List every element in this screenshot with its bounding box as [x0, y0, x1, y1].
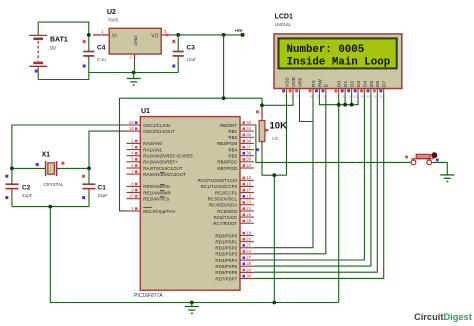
junction VDD line / resistor top [260, 103, 264, 107]
pin 6 E [322, 84, 330, 99]
svg-text:RA0/AN0: RA0/AN0 [143, 141, 162, 146]
svg-text:D0: D0 [337, 81, 343, 87]
svg-text:C4: C4 [97, 45, 106, 52]
pin 4 RA2/AN2/VREF-/CVREF [126, 151, 193, 159]
wire ground rail power [89, 72, 178, 74]
svg-text:CírcuitDigest: CírcuitDigest [414, 312, 472, 322]
crystal X1 [12, 161, 89, 176]
svg-text:RD2/PSP2: RD2/PSP2 [215, 246, 237, 251]
pin 17 RC2/CCP1 [215, 187, 254, 195]
wire crystal rail to main ground rail [49, 207, 51, 303]
svg-text:35: 35 [246, 132, 251, 137]
svg-text:VEE: VEE [297, 77, 303, 87]
wire VSS link to ground rail [273, 175, 275, 302]
pin 29 RD6/PSP6 [215, 267, 253, 275]
pin 38 RB5 [228, 151, 253, 159]
junction crystal rail drop [48, 205, 52, 209]
svg-text:RB1: RB1 [228, 129, 237, 134]
svg-text:37: 37 [246, 144, 251, 149]
pin 8 RE0/AN5/RD [126, 181, 170, 189]
svg-text:25: 25 [246, 212, 251, 217]
pin 3 VEE [295, 77, 303, 98]
capacitor C2 [5, 168, 18, 206]
svg-text:RE2/AN7/CS: RE2/AN7/CS [143, 196, 169, 201]
svg-text:RC0/T1OSO/T1CKI: RC0/T1OSO/T1CKI [198, 178, 238, 183]
pin 21 RD2/PSP2 [215, 243, 253, 251]
svg-text:20: 20 [246, 237, 251, 242]
ground [185, 307, 199, 314]
pin 8 D1 [341, 81, 349, 99]
pin 13 D6 [373, 81, 381, 99]
junction D1 tie [343, 103, 347, 107]
wire MCLR pull-up line [120, 98, 263, 211]
svg-text:VSS: VSS [284, 77, 290, 87]
svg-text:RD3/PSP3: RD3/PSP3 [215, 252, 237, 257]
junction D2 tie [350, 103, 354, 107]
svg-text:RC2/CCP1: RC2/CCP1 [215, 190, 238, 195]
capacitor C1 [82, 168, 95, 206]
svg-text:RB7/PGD: RB7/PGD [217, 166, 238, 171]
svg-text:36: 36 [246, 138, 251, 143]
svg-text:GND: GND [133, 35, 138, 46]
svg-text:RD0/PSP0: RD0/PSP0 [215, 233, 237, 238]
wire to ground symbol [133, 73, 135, 79]
pin 30 RD7/PSP7 [215, 273, 253, 281]
pin 26 RC7/RX/DT [213, 218, 253, 226]
node +5V [235, 28, 245, 37]
svg-text:LM016L: LM016L [275, 22, 292, 27]
wire D0 down to ground rail [338, 94, 340, 303]
junction regulator ground [132, 71, 136, 75]
pin 19 RD0/PSP0 [215, 230, 253, 238]
pin 13 OSC1/CLKIN [126, 120, 170, 128]
pin 9 D2 [347, 81, 355, 99]
svg-text:RW: RW [317, 79, 323, 87]
wire D6 to RD6 [254, 94, 377, 273]
pin 36 RB3/PGM [217, 138, 254, 146]
battery BAT1 [29, 22, 47, 79]
wire button to ground [432, 162, 448, 174]
svg-text:24: 24 [246, 206, 251, 211]
svg-text:PIC16F877A: PIC16F877A [134, 293, 163, 299]
svg-text:40: 40 [246, 163, 251, 168]
overline WR [160, 190, 164, 192]
svg-text:U1: U1 [141, 108, 150, 115]
wire D4 to RD4 [254, 94, 365, 260]
wire VEE jog [300, 94, 314, 122]
svg-text:39: 39 [246, 157, 251, 162]
pin 15 RC0/T1OSO/T1CKI [198, 175, 254, 183]
pin 14 D7 [379, 81, 387, 99]
wire D5 to RD5 [254, 94, 371, 266]
pin 6 RA4/T0CKI/C1OUT [126, 163, 182, 171]
svg-text:RC4/SDI/SDA: RC4/SDI/SDA [209, 203, 237, 208]
wire battery- to ground rail [38, 73, 89, 80]
svg-text:RC1/T1OSI/CCP2: RC1/T1OSI/CCP2 [201, 184, 238, 189]
pin 5 RA3/AN3/VREF+ [126, 157, 178, 165]
resistor R1 10K [256, 105, 268, 151]
svg-text:RC7/RX/DT: RC7/RX/DT [213, 221, 237, 226]
svg-text:RD4/PSP4: RD4/PSP4 [215, 258, 237, 263]
svg-text:LCD1: LCD1 [275, 14, 293, 21]
svg-text:D3: D3 [356, 81, 362, 87]
junction ground symbol [190, 301, 194, 305]
svg-text:13: 13 [373, 95, 376, 99]
svg-text:RA5/AN4/SS/C2OUT: RA5/AN4/SS/C2OUT [143, 172, 186, 177]
wire resistor bottom to VSS link [262, 148, 287, 176]
pin 37 RB4 [228, 144, 253, 152]
junction +5V drop [222, 33, 226, 37]
svg-text:30: 30 [246, 273, 251, 278]
svg-text:0.1u: 0.1u [97, 57, 106, 62]
svg-text:10: 10 [129, 194, 134, 199]
svg-text:OSC1/CLKIN: OSC1/CLKIN [143, 123, 170, 128]
svg-text:RA2/AN2/VREF-/CVREF: RA2/AN2/VREF-/CVREF [143, 154, 193, 159]
wire VDD to +5V line [262, 94, 293, 106]
svg-text:RC6/TX/CK: RC6/TX/CK [214, 215, 238, 220]
svg-text:RE1/AN6/WR: RE1/AN6/WR [143, 190, 171, 195]
svg-text:MCLR/Vpp/THV: MCLR/Vpp/THV [143, 209, 175, 214]
svg-text:23: 23 [246, 200, 251, 205]
svg-text:12: 12 [367, 95, 370, 99]
svg-text:RC3/SCK/SCL: RC3/SCK/SCL [208, 196, 238, 201]
svg-text:34: 34 [246, 126, 251, 131]
svg-text:33: 33 [246, 120, 251, 125]
pin 40 RB7/PGD [217, 163, 253, 171]
svg-text:29: 29 [246, 267, 251, 272]
svg-text:RD1/PSP1: RD1/PSP1 [215, 239, 237, 244]
svg-text:9V: 9V [50, 46, 57, 52]
svg-text:RB6/PGC: RB6/PGC [217, 160, 238, 165]
svg-text:RB5: RB5 [228, 154, 237, 159]
svg-text:CRYSTAL: CRYSTAL [44, 182, 64, 187]
svg-text:C1: C1 [98, 185, 107, 192]
junction VO/C3 [176, 33, 180, 37]
svg-text:X1: X1 [42, 152, 51, 159]
svg-text:14: 14 [129, 126, 134, 131]
junction MCLR net / +5V [222, 96, 226, 100]
button [405, 152, 439, 165]
svg-text:RA1/AN1: RA1/AN1 [143, 147, 162, 152]
pin 23 RC4/SDI/SDA [209, 200, 254, 208]
pin 18 RC3/SCK/SCL [208, 194, 254, 202]
pin 34 RB1 [228, 126, 253, 134]
pin 28 RD5/PSP5 [215, 261, 253, 269]
wire OSC2 to crystal [89, 131, 126, 168]
junction VSS drop / rail [272, 301, 276, 305]
wire E to RD3 [254, 94, 326, 254]
svg-text:VO: VO [151, 33, 158, 39]
junction battery/C4/VI [87, 33, 91, 37]
svg-text:BAT1: BAT1 [50, 37, 68, 44]
svg-text:RC5/SDO: RC5/SDO [217, 209, 238, 214]
wire VSS down [286, 94, 288, 176]
svg-text:22pF: 22pF [98, 193, 109, 198]
svg-text:E: E [324, 84, 330, 87]
wire to ground symbol [191, 303, 193, 307]
svg-text:15: 15 [246, 175, 251, 180]
overline SS [160, 171, 164, 173]
pin 39 RB6/PGC [217, 157, 253, 165]
junction D0 tie [337, 103, 341, 107]
svg-text:38: 38 [246, 151, 251, 156]
junction VSS link drop [272, 173, 276, 177]
pin 1 VSS [282, 77, 290, 98]
wire VO to +5V [171, 34, 243, 36]
pin 11 D4 [360, 81, 368, 99]
svg-text:Inside Main Loop: Inside Main Loop [287, 57, 391, 69]
svg-text:D2: D2 [350, 81, 356, 87]
svg-text:OSC2/CLKOUT: OSC2/CLKOUT [143, 129, 175, 134]
svg-text:13: 13 [129, 120, 134, 125]
svg-text:RD6/PSP6: RD6/PSP6 [215, 270, 237, 275]
svg-text:22: 22 [246, 249, 251, 254]
pin 20 RD1/PSP1 [215, 237, 253, 245]
overline CS [160, 196, 164, 198]
svg-text:RB3/PGM: RB3/PGM [217, 141, 238, 146]
pin 7 RA5/AN4/SS/C2OUT [126, 169, 186, 177]
ground [440, 175, 454, 182]
wire +5V drop to MCLR net [223, 35, 225, 98]
wire D7 to RD7 [254, 94, 384, 279]
CircuitDigest logo [414, 312, 472, 322]
overline RD [160, 184, 164, 186]
svg-text:D1: D1 [343, 81, 349, 87]
svg-text:22pF: 22pF [22, 193, 33, 198]
svg-text:19: 19 [246, 230, 251, 235]
svg-text:RD7/PSP7: RD7/PSP7 [215, 276, 237, 281]
junction crystal/C1 [87, 167, 91, 171]
svg-text:26: 26 [246, 218, 251, 223]
pin 33 RB0/INT [220, 120, 254, 128]
svg-text:10uf: 10uf [187, 57, 197, 62]
svg-text:RA4/T0CKI/C1OUT: RA4/T0CKI/C1OUT [143, 166, 183, 171]
wire battery+ to node VIN [38, 22, 89, 35]
svg-text:27: 27 [246, 255, 251, 260]
pin 12 D5 [367, 81, 375, 99]
wire D2 down [351, 94, 353, 105]
pin 3 RA1/AN1 [126, 144, 162, 152]
wire D1 down [344, 94, 346, 105]
svg-text:16: 16 [246, 181, 251, 186]
svg-text:17: 17 [246, 187, 251, 192]
overline MCLR [143, 206, 152, 208]
MCU U1 PIC16F877A [140, 117, 240, 291]
pin 25 RC6/TX/CK [214, 212, 254, 220]
wire RB0 to button [254, 125, 411, 162]
pin 22 RD3/PSP3 [215, 249, 253, 257]
svg-text:18: 18 [246, 194, 251, 199]
svg-text:VI: VI [112, 33, 117, 39]
svg-text:D4: D4 [362, 81, 368, 87]
svg-text:C2: C2 [22, 185, 31, 192]
pin 10 D3 [354, 81, 362, 99]
svg-text:D7: D7 [382, 81, 388, 87]
svg-text:10: 10 [354, 95, 357, 99]
svg-text:+5V: +5V [235, 28, 243, 33]
svg-text:7805: 7805 [108, 18, 119, 24]
wire regulator pin2 to rail [134, 61, 136, 73]
wire crystal ground rail [12, 206, 89, 208]
svg-text:RA3/AN3/VREF+: RA3/AN3/VREF+ [143, 160, 178, 165]
pin 7 D0 [334, 81, 342, 99]
wire main ground rail [50, 302, 338, 304]
svg-text:21: 21 [246, 243, 251, 248]
svg-text:D6: D6 [375, 81, 381, 87]
svg-text:RS: RS [311, 80, 317, 87]
svg-text:RB0/INT: RB0/INT [220, 123, 238, 128]
LCD LCD1 LM016L [274, 34, 402, 89]
pin 14 OSC2/CLKOUT [126, 126, 175, 134]
wire OSC1 to crystal [12, 125, 127, 168]
capacitor C3 [172, 35, 184, 73]
pin 1 MCLR/Vpp/THV [126, 206, 175, 214]
svg-text:RD5/PSP5: RD5/PSP5 [215, 264, 237, 269]
svg-text:14: 14 [380, 95, 383, 99]
svg-text:RB2: RB2 [228, 135, 237, 140]
pin 10 RE2/AN7/CS [126, 194, 169, 202]
pin 2 RA0/AN0 [126, 138, 162, 146]
regulator U2 7805 [93, 28, 171, 60]
svg-text:C3: C3 [187, 45, 196, 52]
svg-text:10k: 10k [272, 136, 280, 141]
svg-text:Number: 0005: Number: 0005 [287, 44, 365, 56]
pin 2 VDD [289, 76, 297, 98]
wire RW/D3 tie line [319, 94, 358, 105]
svg-text:RB4: RB4 [228, 147, 237, 152]
pin 9 RE1/AN6/WR [126, 187, 171, 195]
svg-text:10K: 10K [270, 120, 288, 131]
ground [127, 79, 141, 86]
wire RS to RD2 [254, 94, 313, 248]
pin 27 RD4/PSP4 [215, 255, 253, 263]
svg-text:D5: D5 [369, 81, 375, 87]
junction crystal/C2 [10, 167, 14, 171]
pin 4 RS [309, 80, 317, 98]
svg-text:VDD: VDD [291, 76, 297, 87]
svg-text:RE0/AN5/RD: RE0/AN5/RD [143, 184, 170, 189]
pin 24 RC5/SDO [217, 206, 254, 214]
svg-text:U2: U2 [107, 9, 116, 16]
pin 16 RC1/T1OSI/CCP2 [201, 181, 254, 189]
pin 35 RB2 [228, 132, 253, 140]
capacitor C4 [83, 35, 95, 73]
svg-text:28: 28 [246, 261, 251, 266]
pin 5 RW [315, 79, 323, 99]
